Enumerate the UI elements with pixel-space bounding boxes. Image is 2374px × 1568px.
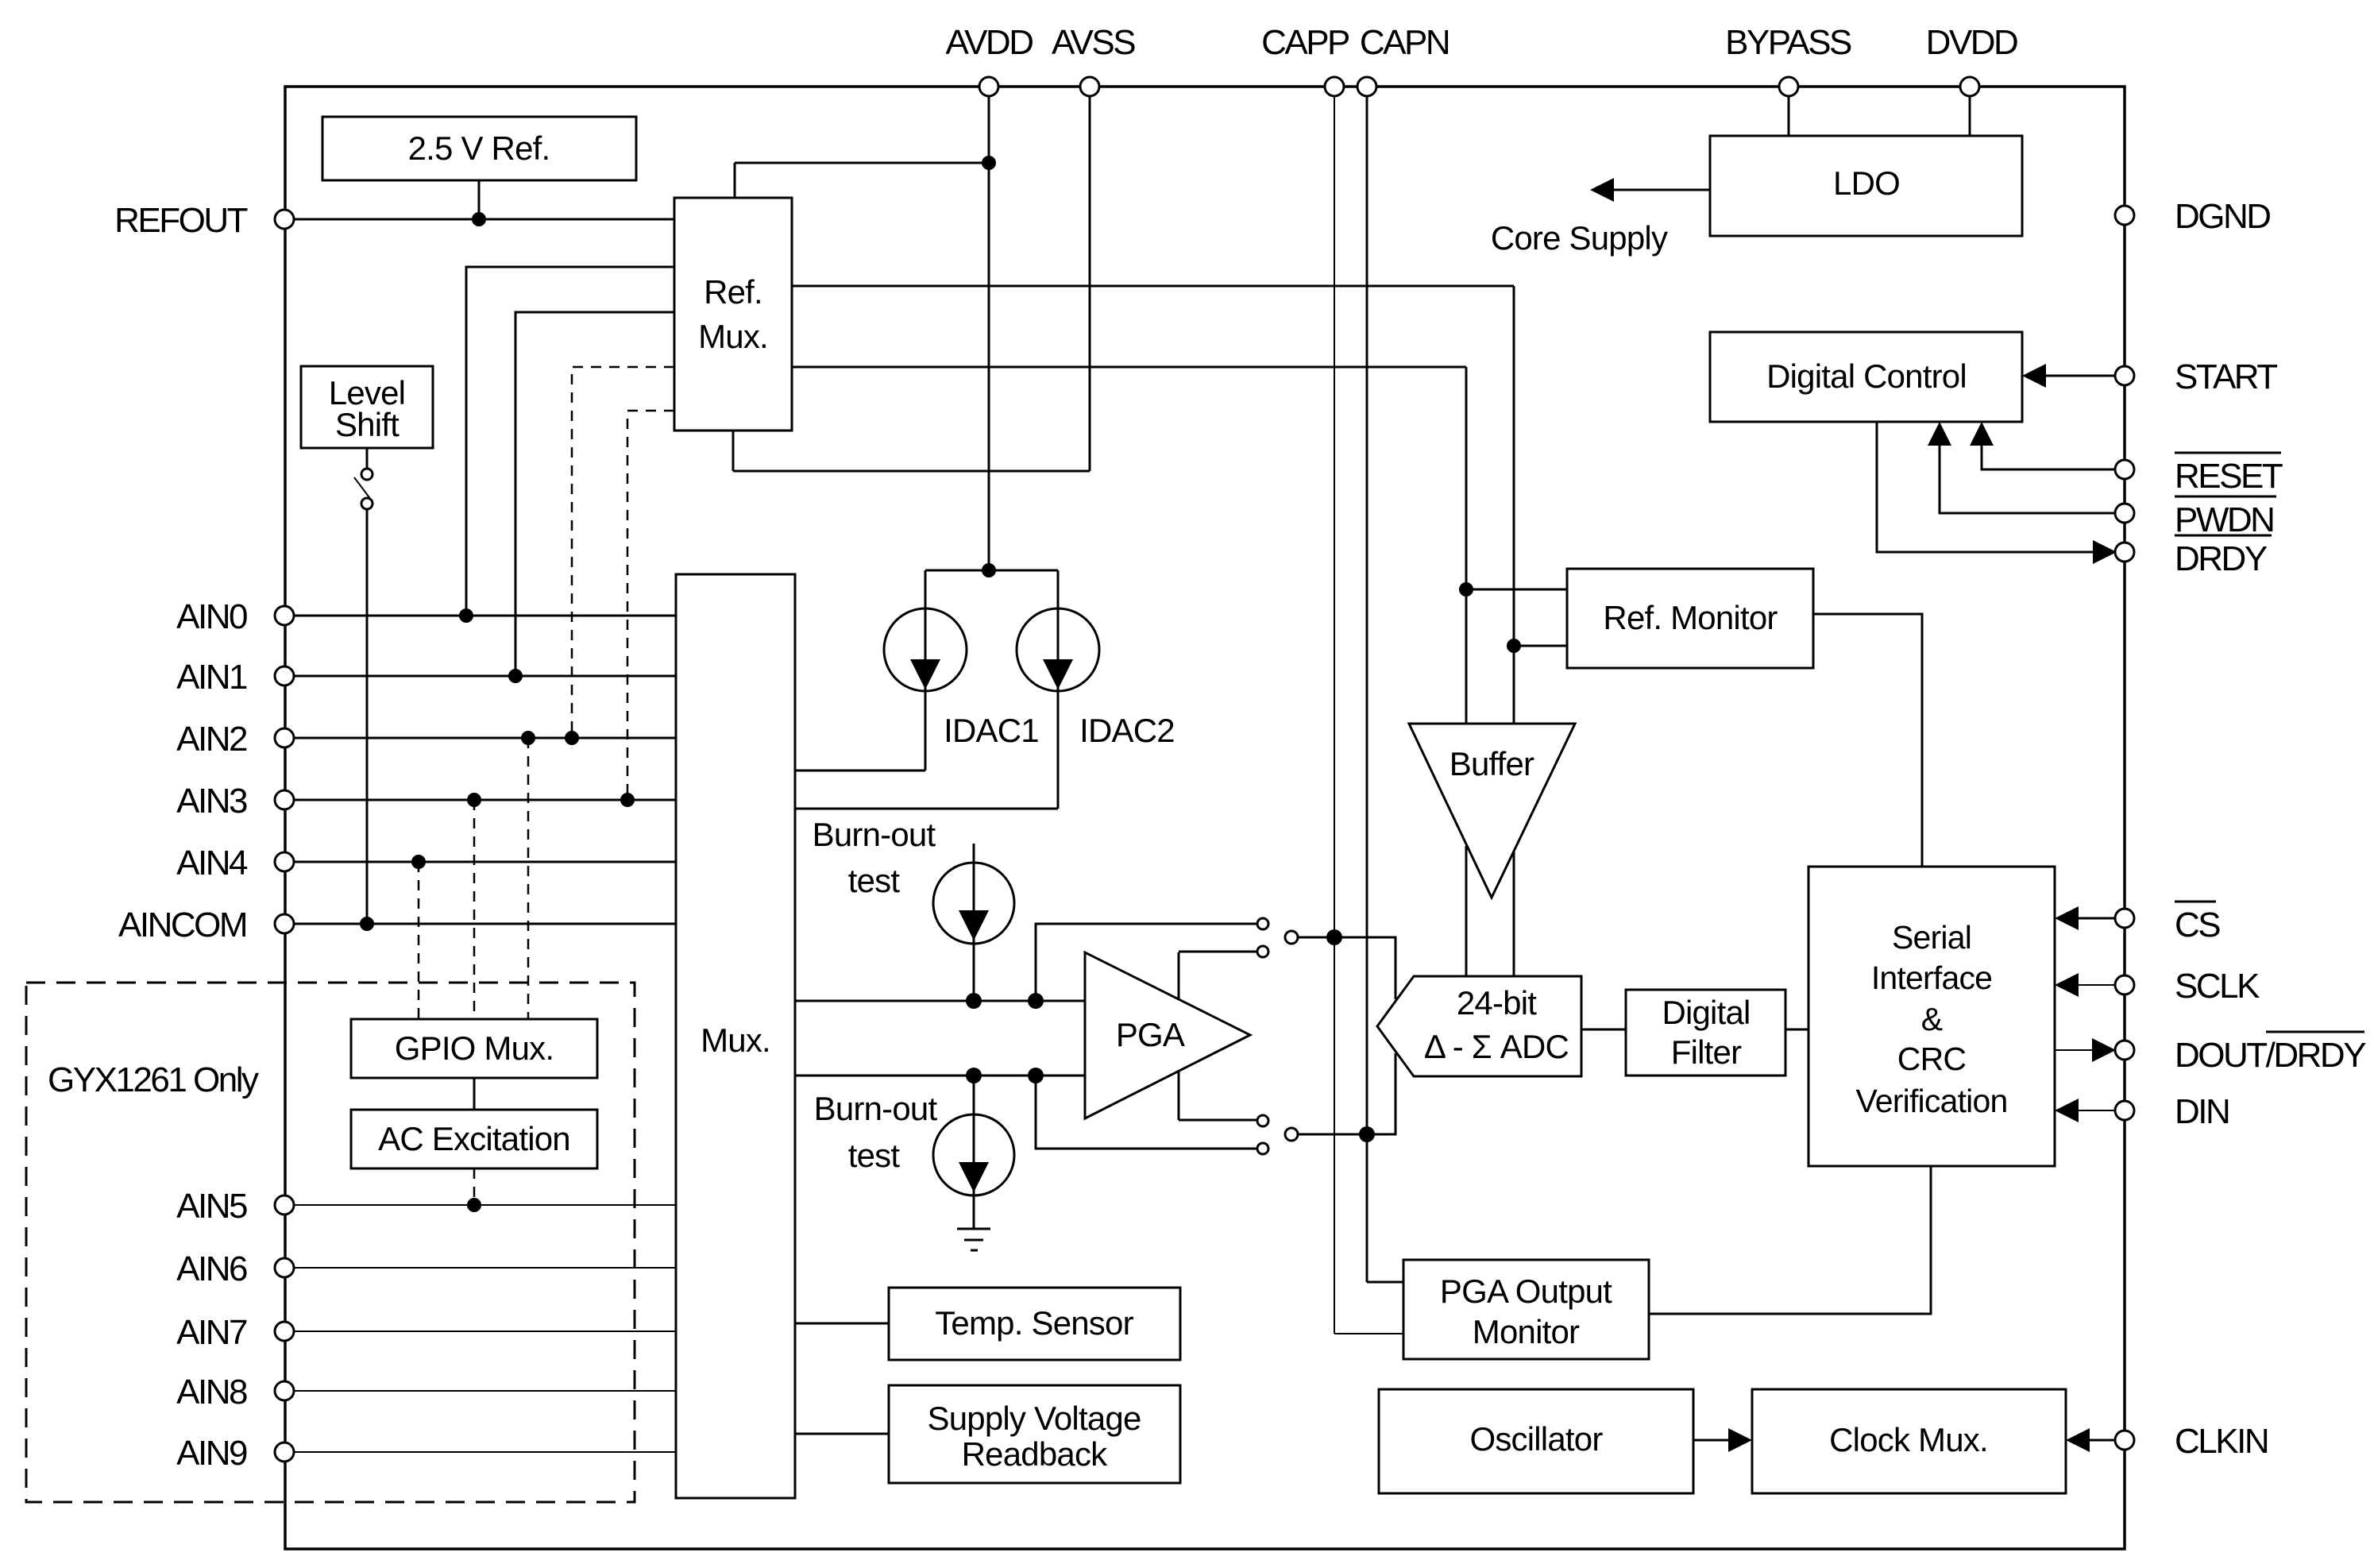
svg-text:AVDD: AVDD [946, 23, 1033, 62]
svg-text:CS: CS [2175, 906, 2220, 944]
svg-text:AIN5: AIN5 [176, 1187, 247, 1226]
svg-text:24-bit: 24-bit [1457, 984, 1537, 1022]
wire IDAC supply rail [925, 570, 1058, 572]
svg-text:SCLK: SCLK [2175, 967, 2260, 1006]
wire DRDY from Digital Control [1877, 422, 2117, 564]
block LDO [1710, 136, 2022, 236]
svg-text:Verification: Verification [1856, 1083, 2008, 1119]
svg-text:AIN0: AIN0 [176, 597, 247, 636]
svg-text:Burn-out: Burn-out [813, 816, 936, 853]
pin AIN4 [176, 844, 294, 882]
pin AIN1 [176, 658, 294, 697]
pin DRDY (active low) [2115, 535, 2272, 578]
wire GPIO dashed from AIN4 [411, 855, 426, 1019]
pin AIN3 [176, 782, 294, 821]
wire CLKIN into Clock Mux [2066, 1428, 2115, 1452]
wire GPIO Mux to AC Excitation [473, 1078, 476, 1110]
svg-text:Shift: Shift [335, 406, 400, 443]
wire PGA feedback lower [1036, 1076, 1257, 1149]
wire Mux to Supply Voltage Readback [795, 1433, 889, 1435]
svg-text:CRC: CRC [1897, 1041, 1967, 1077]
svg-text:START: START [2175, 357, 2277, 396]
svg-text:Filter: Filter [1671, 1033, 1742, 1071]
pin AINCOM [118, 906, 294, 944]
wire AIN5 row [294, 1204, 676, 1206]
wire AIN6 row [294, 1267, 676, 1269]
wire Serial Interface to PGA Output Monitor [1649, 1166, 1931, 1314]
node upper chopper contacts [1257, 918, 1298, 957]
pin AIN7 [176, 1313, 294, 1352]
wire REFOUT net [294, 180, 674, 226]
current source burn-out test 2 [814, 1090, 1014, 1195]
wire IDAC1 path to Mux [795, 570, 925, 770]
chip outline [285, 87, 2125, 1549]
svg-text:DGND: DGND [2175, 197, 2270, 236]
block Mux. [676, 574, 795, 1498]
svg-text:DRDY: DRDY [2175, 539, 2268, 578]
svg-text:DVDD: DVDD [1926, 23, 2017, 62]
svg-text:Temp. Sensor: Temp. Sensor [935, 1304, 1133, 1342]
wire burn-out source 1 vertical [973, 844, 975, 1001]
wire Level Shift switch to AINCOM [354, 448, 374, 931]
svg-text:AIN7: AIN7 [176, 1313, 247, 1352]
svg-text:DOUT/DRDY: DOUT/DRDY [2175, 1036, 2366, 1075]
svg-text:2.5 V Ref.: 2.5 V Ref. [408, 129, 550, 167]
pin DVDD [1926, 23, 2017, 96]
wire LDO core-supply arrow [1491, 178, 1710, 257]
pin AVSS [1052, 23, 1135, 96]
wire Digital Filter to Serial Interface [1785, 1029, 1808, 1031]
wire Mux to PGA positive input [795, 993, 1085, 1009]
op-amp PGA [1085, 952, 1250, 1118]
wire CAPN net [1359, 96, 1403, 1282]
wire CAPP net [1326, 96, 1403, 1334]
svg-text:DIN: DIN [2175, 1092, 2229, 1131]
block Temp. Sensor [889, 1288, 1180, 1360]
pin AIN9 [176, 1434, 294, 1473]
block Supply Voltage Readback [889, 1385, 1180, 1483]
svg-text:Digital: Digital [1662, 994, 1750, 1031]
pin DIN [2115, 1092, 2229, 1131]
svg-text:AIN8: AIN8 [176, 1373, 247, 1412]
wire Ref.Mux input 4 from AIN3 (dashed) [620, 411, 674, 807]
svg-text:Supply Voltage: Supply Voltage [927, 1400, 1141, 1437]
wire DOUT/DRDY out of Serial Interface [2055, 1038, 2116, 1062]
svg-text:Δ - Σ ADC: Δ - Σ ADC [1424, 1028, 1569, 1065]
svg-text:CAPN: CAPN [1360, 23, 1449, 62]
pin CAPN [1357, 23, 1449, 96]
block Digital Control [1710, 332, 2022, 422]
wire PWDN into Digital Control [1928, 422, 2115, 513]
wire AIN2 row [294, 737, 676, 740]
wire Mux to Temp Sensor [795, 1323, 889, 1325]
svg-text:GPIO Mux.: GPIO Mux. [395, 1029, 554, 1067]
wire AINCOM row [294, 923, 676, 925]
current source IDAC2 [1017, 608, 1175, 749]
wire lower chopper common to ADC [1297, 1053, 1395, 1134]
svg-text:Oscillator: Oscillator [1469, 1420, 1603, 1458]
block GPIO Mux. [351, 1019, 597, 1078]
svg-text:Buffer: Buffer [1449, 745, 1534, 782]
wire DIN into Serial Interface [2055, 1099, 2115, 1122]
svg-text:IDAC1: IDAC1 [944, 712, 1039, 749]
block Digital Filter [1626, 990, 1785, 1076]
svg-text:AIN9: AIN9 [176, 1434, 247, 1473]
wire AVSS net [733, 96, 1090, 471]
svg-text:AIN6: AIN6 [176, 1249, 247, 1288]
svg-text:Mux.: Mux. [698, 318, 768, 355]
node lower chopper contacts [1257, 1115, 1298, 1154]
svg-text:Ref. Monitor: Ref. Monitor [1603, 599, 1778, 636]
wire CS into Serial Interface [2055, 906, 2115, 930]
block Clock Mux. [1752, 1389, 2066, 1493]
wire AIN8 row [294, 1390, 676, 1392]
svg-text:Clock Mux.: Clock Mux. [1829, 1421, 1988, 1458]
block PGA Output Monitor [1403, 1260, 1649, 1359]
wire Ref.Mux input 1 from AIN0 [459, 267, 674, 623]
pin PWDN (active low) [2115, 496, 2276, 539]
pin DGND [2115, 197, 2270, 236]
svg-text:Digital Control: Digital Control [1766, 357, 1967, 395]
wire AIN3 row [294, 799, 676, 801]
pin DOUT/DRDY [2115, 1032, 2366, 1075]
wire START into Digital Control [2022, 364, 2115, 388]
current source IDAC1 [884, 608, 1039, 749]
wire PGA feedback upper [1036, 924, 1257, 1001]
pin AIN5 [176, 1187, 294, 1226]
ADC 24-bit delta-sigma (pentagon) [1377, 976, 1581, 1076]
svg-text:test: test [848, 1137, 901, 1174]
op-amp Buffer [1409, 724, 1575, 898]
svg-text:PWDN: PWDN [2175, 500, 2273, 539]
wire AC Excitation to AIN5 (dashed) [467, 1168, 481, 1212]
svg-text:Interface: Interface [1871, 960, 1992, 996]
wire Oscillator to Clock Mux arrow [1693, 1428, 1752, 1452]
block Serial Interface & CRC Verification [1808, 867, 2055, 1166]
block Ref. Mux. [674, 198, 792, 431]
block 2.5 V Ref. [322, 117, 636, 180]
wire AIN7 row [294, 1330, 676, 1332]
svg-text:AIN1: AIN1 [176, 658, 247, 697]
svg-text:LDO: LDO [1833, 164, 1900, 202]
svg-text:GYX1261 Only: GYX1261 Only [48, 1060, 259, 1099]
svg-text:Readback: Readback [962, 1435, 1109, 1473]
wire burn-out source 2 vertical [973, 1076, 975, 1228]
pin CS (active low) [2115, 902, 2220, 944]
pin AVDD [946, 23, 1033, 96]
svg-text:IDAC2: IDAC2 [1079, 712, 1175, 749]
wire SCLK into Serial Interface [2055, 973, 2115, 997]
wire REFN from Ref.Mux to Buffer and ADC [792, 367, 1466, 976]
wire Ref.Monitor output to Serial Interface [1813, 614, 1922, 867]
wire REFP from Ref.Mux to Buffer and ADC [792, 286, 1514, 976]
pin BYPASS [1725, 23, 1851, 96]
wire AVDD net [735, 96, 996, 577]
svg-text:AIN4: AIN4 [176, 844, 248, 882]
wire DVDD stub [1969, 96, 1971, 136]
svg-text:PGA: PGA [1116, 1016, 1185, 1053]
wire Ref.Monitor input stub 2 [1507, 639, 1567, 653]
wire Ref.Mux input 2 from AIN1 [508, 312, 674, 683]
block Ref. Monitor [1567, 569, 1813, 668]
wire GPIO dashed from AIN3 [467, 793, 481, 1019]
pin AIN2 [176, 720, 294, 759]
svg-text:AIN2: AIN2 [176, 720, 247, 759]
svg-text:AINCOM: AINCOM [118, 906, 246, 944]
svg-text:PGA Output: PGA Output [1440, 1273, 1612, 1310]
wire RESET into Digital Control [1970, 422, 2115, 469]
current source burn-out test 1 [813, 816, 1014, 944]
svg-text:REFOUT: REFOUT [114, 201, 248, 240]
svg-text:Core Supply: Core Supply [1491, 219, 1668, 257]
wire PGA output network [1179, 952, 1257, 1120]
block AC Excitation [351, 1110, 597, 1168]
pin REFOUT [114, 201, 294, 240]
wire Mux to PGA negative input [795, 1068, 1085, 1083]
svg-text:Ref.: Ref. [704, 273, 762, 311]
pin RESET (active low) [2115, 453, 2283, 496]
pin SCLK [2115, 967, 2260, 1006]
wire upper chopper common to ADC [1297, 937, 1395, 999]
svg-text:Burn-out: Burn-out [814, 1090, 938, 1127]
pin AIN8 [176, 1373, 294, 1412]
wire AIN9 row [294, 1451, 676, 1453]
ground [957, 1229, 990, 1250]
wire Ref.Mux input 3 from AIN2 (dashed) [565, 367, 674, 745]
svg-text:Mux.: Mux. [701, 1022, 770, 1059]
svg-text:Serial: Serial [1892, 919, 1971, 956]
wire Ref.Monitor input stub 1 [1459, 582, 1567, 597]
svg-text:test: test [848, 862, 901, 899]
svg-text:AIN3: AIN3 [176, 782, 247, 821]
svg-text:Monitor: Monitor [1473, 1313, 1580, 1350]
svg-text:AC Excitation: AC Excitation [378, 1120, 570, 1157]
wire AIN4 row [294, 861, 676, 863]
wire AIN1 row [294, 675, 676, 678]
wire ADC to Digital Filter [1581, 1029, 1626, 1031]
wire GPIO dashed from AIN2 [521, 731, 535, 1019]
block Level Shift [301, 366, 433, 448]
svg-text:RESET: RESET [2175, 457, 2283, 496]
pin AIN6 [176, 1249, 294, 1288]
wire IDAC2 path to Mux [795, 570, 1058, 809]
block Oscillator [1379, 1389, 1693, 1493]
GYX1261-only dashed region [26, 983, 635, 1502]
pin AIN0 [176, 597, 294, 636]
pin CAPP [1261, 23, 1349, 96]
pin START [2115, 357, 2277, 396]
svg-text:&: & [1921, 1001, 1943, 1037]
svg-text:CAPP: CAPP [1261, 23, 1349, 62]
svg-text:AVSS: AVSS [1052, 23, 1135, 62]
pin CLKIN [2115, 1422, 2268, 1461]
wire AIN0 row [294, 615, 676, 617]
wire BYPASS stub [1788, 96, 1790, 136]
svg-text:CLKIN: CLKIN [2175, 1422, 2268, 1461]
svg-text:BYPASS: BYPASS [1725, 23, 1851, 62]
